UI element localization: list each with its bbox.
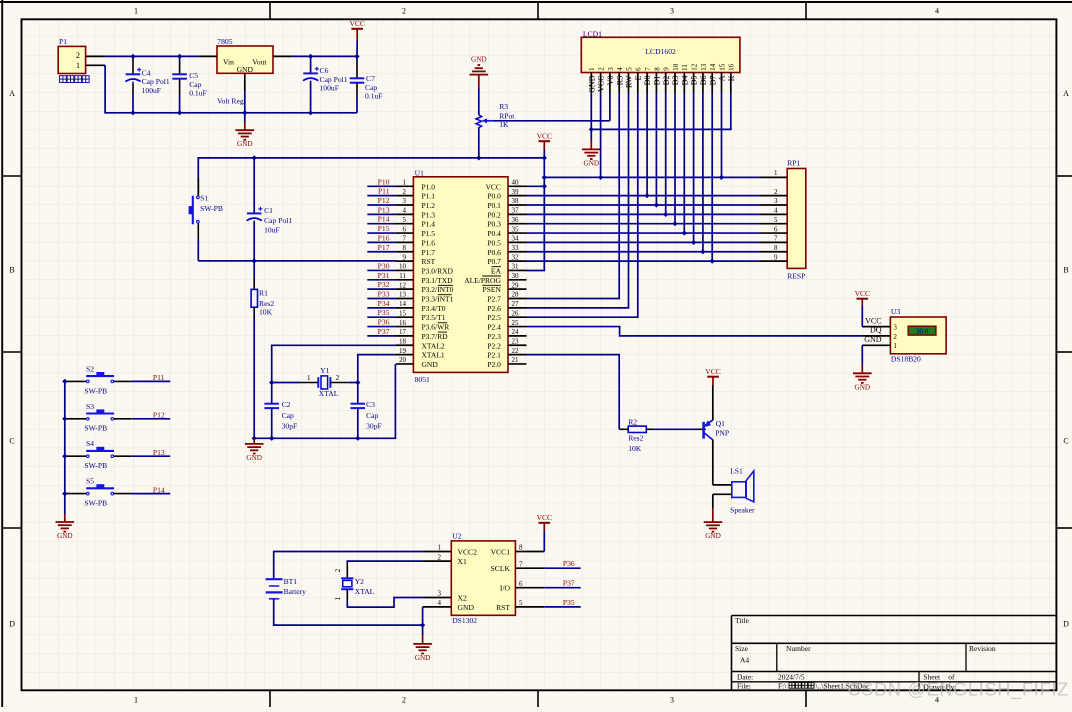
svg-text:15: 15: [399, 309, 407, 317]
U1 left stub wires and net labels P30-P37: [367, 261, 396, 335]
svg-text:B: B: [9, 266, 14, 275]
svg-text:P10: P10: [378, 177, 390, 186]
svg-text:12: 12: [691, 63, 699, 71]
ground GND below speaker: [704, 508, 723, 540]
svg-text:P2.4: P2.4: [487, 323, 501, 332]
svg-text:C5: C5: [189, 71, 198, 80]
junction dot C7 top: [354, 54, 359, 59]
svg-text:100uF: 100uF: [320, 84, 339, 93]
svg-text:3: 3: [403, 197, 407, 205]
wire 7805 GND to rail: [244, 92, 246, 113]
crystal Y2: [334, 561, 423, 601]
svg-text:P31: P31: [378, 271, 390, 280]
switch S2: [65, 364, 131, 395]
svg-text:P37: P37: [563, 579, 575, 588]
power port VCC top: [349, 19, 364, 56]
svg-text:RW: RW: [625, 75, 634, 88]
wire VCC rail to reset circuit: [198, 158, 544, 196]
svg-text:D2: D2: [662, 76, 671, 86]
svg-text:VCC: VCC: [349, 19, 364, 28]
svg-text:C6: C6: [320, 66, 329, 75]
svg-text:37: 37: [512, 207, 520, 215]
svg-text:P3.2/INT0: P3.2/INT0: [422, 285, 454, 294]
svg-text:1: 1: [334, 597, 342, 601]
svg-text:10uF: 10uF: [264, 226, 280, 235]
resistor R2: [619, 418, 654, 453]
svg-text:14: 14: [399, 300, 407, 308]
svg-text:22: 22: [512, 347, 520, 355]
svg-text:P1: P1: [59, 37, 67, 46]
svg-text:7: 7: [403, 235, 407, 243]
svg-text:C2: C2: [282, 400, 291, 409]
svg-text:P12: P12: [153, 411, 165, 420]
svg-text:ALE/PROG: ALE/PROG: [464, 276, 501, 285]
transistor Q1 PNP: [704, 385, 730, 485]
power port VCC near U1: [537, 131, 552, 158]
svg-text:C3: C3: [366, 400, 375, 409]
wire RST net label P35: [544, 606, 580, 608]
svg-text:D6: D6: [699, 76, 708, 86]
svg-text:P0.5: P0.5: [487, 238, 501, 247]
svg-text:RP1: RP1: [787, 159, 800, 168]
title block: [732, 616, 1057, 692]
svg-text:VCC: VCC: [597, 76, 606, 92]
svg-text:Vin: Vin: [223, 57, 234, 66]
svg-text:F:\: F:\: [778, 682, 787, 691]
junction dots C4: [130, 54, 135, 59]
svg-text:D0: D0: [643, 76, 652, 86]
svg-text:1: 1: [774, 169, 778, 177]
svg-text:16: 16: [399, 319, 407, 327]
junction dots VCC rail: [252, 155, 257, 160]
wire XTAL1 pin19: [358, 355, 396, 383]
svg-text:10: 10: [672, 63, 680, 71]
svg-text:SCLK: SCLK: [491, 564, 511, 573]
svg-text:P13: P13: [378, 205, 390, 214]
svg-text:RST: RST: [422, 257, 436, 266]
svg-text:2: 2: [403, 188, 407, 196]
svg-text:I/O: I/O: [500, 584, 511, 593]
svg-text:21: 21: [512, 356, 520, 364]
svg-text:4: 4: [438, 599, 442, 607]
svg-text:39: 39: [512, 188, 520, 196]
svg-text:U3: U3: [891, 307, 900, 316]
svg-text:P2.3: P2.3: [487, 332, 501, 341]
display LCD1 LCD1602 body: [581, 29, 740, 72]
svg-text:LS1: LS1: [730, 467, 743, 476]
svg-text:1: 1: [403, 179, 407, 187]
resistor R1: [251, 261, 274, 438]
svg-text:P1.2: P1.2: [422, 201, 436, 210]
svg-text:5: 5: [519, 599, 523, 607]
svg-text:2024/7/5: 2024/7/5: [778, 672, 805, 681]
svg-text:P0.2: P0.2: [487, 210, 501, 219]
svg-text:8: 8: [403, 244, 407, 252]
switch S3: [65, 402, 131, 433]
svg-text:Y1: Y1: [320, 366, 329, 375]
svg-text:2: 2: [438, 553, 442, 561]
svg-text:D5: D5: [690, 76, 699, 86]
svg-text:VCC: VCC: [865, 316, 881, 325]
svg-text:P11: P11: [378, 187, 390, 196]
svg-text:3: 3: [670, 696, 674, 705]
switch S5: [65, 477, 131, 508]
svg-text:Q1: Q1: [716, 419, 725, 428]
svg-text:7: 7: [644, 67, 652, 71]
ground GND for U3: [853, 345, 872, 391]
junction dot S3 rail: [62, 416, 67, 421]
svg-text:P1.0: P1.0: [422, 182, 436, 191]
svg-text:27: 27: [512, 300, 520, 308]
svg-text:Speaker: Speaker: [730, 506, 755, 515]
svg-text:SW-PB: SW-PB: [84, 424, 107, 433]
junction dot S5 rail: [62, 491, 67, 496]
svg-text:8: 8: [653, 67, 661, 71]
svg-text:C7: C7: [366, 74, 375, 83]
svg-text:Cap: Cap: [189, 80, 201, 89]
svg-text:6: 6: [403, 225, 407, 233]
svg-text:1: 1: [588, 67, 596, 71]
power port VCC for Q1: [705, 367, 720, 385]
svg-text:GND: GND: [471, 56, 487, 64]
wire P2.1 to R2: [527, 355, 620, 430]
wire crystal ground rail to U1 GND pin20: [254, 364, 395, 438]
regulator 7805: [199, 37, 292, 106]
svg-text:7: 7: [519, 560, 523, 568]
svg-text:XTAL2: XTAL2: [422, 341, 445, 350]
svg-text:P2.0: P2.0: [487, 360, 501, 369]
wire SCLK net label P36: [544, 567, 580, 569]
ground GND below R1: [245, 438, 264, 462]
svg-text:Cap Pol1: Cap Pol1: [264, 216, 292, 225]
svg-text:P2.1: P2.1: [487, 351, 501, 360]
svg-text:20: 20: [399, 356, 407, 364]
junction dot S4 rail: [62, 454, 67, 459]
svg-text:A: A: [1063, 89, 1069, 98]
wire LCD VCC pin2 column: [600, 93, 602, 177]
junction dot LCD GND/K: [589, 127, 594, 132]
svg-text:C: C: [1063, 437, 1068, 446]
svg-text:GND: GND: [587, 75, 596, 93]
wire S1 bottom to RST row: [198, 240, 396, 261]
svg-text:VCC: VCC: [855, 289, 870, 298]
wire LCD RS to P2.7: [527, 93, 620, 299]
svg-text:LCD1602: LCD1602: [645, 47, 676, 56]
wire R3 wiper to LCD V0: [494, 120, 610, 122]
svg-text:8: 8: [519, 544, 523, 552]
svg-text:6: 6: [774, 225, 778, 233]
junction dots C5: [177, 54, 182, 59]
svg-text:P14: P14: [153, 485, 165, 494]
wire R2 to Q1 base: [654, 428, 706, 430]
wire P1 pin2 to 7805 Vin: [105, 55, 199, 57]
svg-text:3: 3: [607, 67, 615, 71]
svg-text:9: 9: [774, 253, 778, 261]
svg-text:13: 13: [700, 63, 708, 71]
junction dot S2 rail: [62, 379, 67, 384]
switch S1: [189, 178, 223, 240]
svg-text:RESP: RESP: [787, 272, 805, 281]
svg-text:3: 3: [670, 7, 674, 16]
svg-text:28: 28: [512, 291, 520, 299]
svg-text:V0: V0: [606, 76, 615, 86]
junction dots ground rail: [269, 436, 274, 441]
ground GND below DS1302: [413, 635, 432, 662]
svg-text:P37: P37: [378, 327, 390, 336]
svg-text:6: 6: [635, 67, 643, 71]
svg-text:10K: 10K: [259, 308, 273, 317]
svg-text:DS18B20: DS18B20: [891, 355, 921, 364]
junction dots C6: [308, 54, 313, 59]
svg-text:Res2: Res2: [259, 299, 274, 308]
svg-text:D: D: [9, 619, 15, 628]
wire XTAL2 pin18: [272, 345, 396, 382]
svg-text:VCC: VCC: [485, 182, 500, 191]
wire LCD RW to P2.6: [527, 93, 629, 308]
svg-text:Y2: Y2: [355, 577, 364, 586]
svg-text:4: 4: [774, 207, 778, 215]
svg-text:X1: X1: [458, 557, 467, 566]
svg-text:P1.1: P1.1: [422, 192, 436, 201]
wire switch ground rail: [64, 381, 66, 514]
svg-text:36: 36: [512, 216, 520, 224]
svg-text:P12: P12: [378, 196, 390, 205]
svg-text:4: 4: [616, 67, 624, 71]
wire DS1302 GND pin4: [422, 607, 424, 635]
ground GND below LCD pin1: [582, 140, 601, 167]
svg-text:P3.1/TXD: P3.1/TXD: [422, 276, 454, 285]
wire LCD A pin15 column: [721, 93, 723, 177]
svg-text:1: 1: [307, 374, 311, 382]
svg-text:SW-PB: SW-PB: [200, 204, 223, 213]
svg-text:P35: P35: [378, 308, 390, 317]
svg-text:4: 4: [935, 7, 939, 16]
svg-text:Revision: Revision: [969, 644, 996, 653]
svg-text:A: A: [9, 89, 15, 98]
wire VCC vertical to EA: [527, 158, 545, 271]
svg-text:P3.3/INT1: P3.3/INT1: [422, 295, 454, 304]
svg-text:C: C: [9, 437, 14, 446]
battery BT1: [266, 552, 423, 626]
svg-text:P2.6: P2.6: [487, 304, 501, 313]
U1 pins right: [464, 179, 526, 369]
wire I/O net label P37: [544, 587, 580, 589]
wire LCD pin1 to K backlight: [591, 93, 731, 129]
svg-text:E: E: [634, 75, 643, 80]
svg-text:38: 38: [512, 197, 520, 205]
junction dot R1 bottom rail: [252, 436, 257, 441]
svg-text:P15: P15: [378, 224, 390, 233]
svg-text:1: 1: [134, 696, 138, 705]
svg-text:P2.7: P2.7: [487, 295, 501, 304]
capacitor C1: [247, 158, 293, 261]
svg-text:P32: P32: [378, 280, 390, 289]
svg-text:P33: P33: [378, 290, 390, 299]
svg-text:PNP: PNP: [715, 429, 729, 438]
svg-text:VCC1: VCC1: [491, 548, 511, 557]
svg-text:VCC: VCC: [537, 513, 552, 522]
rtc U2 DS1302 body: [423, 532, 545, 625]
svg-text:6: 6: [519, 580, 523, 588]
svg-text:SW-PB: SW-PB: [84, 386, 107, 395]
svg-text:S5: S5: [86, 477, 94, 486]
svg-text:Battery: Battery: [284, 587, 307, 596]
svg-text:P0.7: P0.7: [487, 257, 501, 266]
power port VCC for U3: [855, 289, 870, 327]
svg-text:34: 34: [512, 235, 520, 243]
svg-text:D: D: [1063, 619, 1069, 628]
svg-text:25: 25: [512, 319, 520, 327]
svg-text:10K: 10K: [628, 444, 642, 453]
svg-text:5: 5: [625, 67, 633, 71]
svg-text:R3: R3: [499, 102, 508, 111]
switch S4: [65, 439, 131, 470]
ground GND switches: [56, 514, 75, 540]
wire P1 pin1 to bottom rail: [105, 65, 357, 113]
sensor U3 DS18B20 body: [862, 307, 946, 364]
svg-text:30pF: 30pF: [366, 421, 382, 430]
svg-text:Cap: Cap: [282, 411, 294, 420]
svg-text:P0.0: P0.0: [487, 192, 501, 201]
svg-text:7805: 7805: [217, 37, 232, 46]
wire U1 pin40 VCC: [527, 185, 545, 187]
svg-text:A: A: [718, 75, 727, 81]
svg-text:2: 2: [402, 7, 406, 16]
svg-text:2: 2: [402, 696, 406, 705]
svg-text:9: 9: [663, 67, 671, 71]
svg-text:30pF: 30pF: [282, 421, 298, 430]
svg-text:File:: File:: [737, 682, 751, 691]
connector P1: [58, 37, 105, 83]
svg-text:U1: U1: [415, 168, 424, 177]
svg-text:U2: U2: [452, 532, 461, 541]
svg-text:Size: Size: [735, 644, 749, 653]
svg-text:26: 26: [512, 309, 520, 317]
ground GND below 7805: [236, 113, 255, 148]
svg-text:0.1uF: 0.1uF: [189, 89, 207, 98]
capacitor C5: [172, 56, 206, 112]
svg-text:P0.3: P0.3: [487, 220, 501, 229]
svg-text:BT1: BT1: [284, 577, 298, 586]
svg-text:D4: D4: [680, 76, 689, 86]
wire VCC rail to RP1 pin1: [544, 176, 759, 178]
svg-text:5: 5: [774, 216, 778, 224]
resistor pack RP1: [759, 159, 805, 281]
svg-text:1: 1: [893, 342, 897, 350]
svg-text:D7: D7: [708, 76, 717, 86]
svg-text:1: 1: [438, 544, 442, 552]
svg-text:19: 19: [399, 347, 407, 355]
junction dots VCC vertical: [542, 175, 547, 180]
svg-text:100uF: 100uF: [142, 86, 161, 95]
svg-text:7: 7: [774, 235, 778, 243]
svg-text:GND: GND: [237, 65, 254, 74]
junction dot battery GND: [420, 623, 425, 628]
svg-text:P3.5/T1: P3.5/T1: [422, 313, 446, 322]
svg-text:16: 16: [728, 63, 736, 71]
wire R3 bottom to VCC rail: [478, 127, 480, 158]
svg-text:2: 2: [336, 374, 340, 382]
mcu U1 8051 body: [413, 168, 508, 384]
svg-text:33: 33: [512, 244, 520, 252]
wire P2.4 to DS18B20 DQ: [527, 327, 863, 336]
svg-text:S3: S3: [86, 402, 94, 411]
svg-text:Cap Pol1: Cap Pol1: [142, 77, 170, 86]
svg-text:S4: S4: [86, 439, 94, 448]
svg-text:VCC: VCC: [705, 367, 720, 376]
speaker LS1: [713, 467, 755, 515]
crystal Y1: [272, 366, 358, 398]
svg-text:Number: Number: [786, 644, 811, 653]
svg-text:P0.6: P0.6: [487, 248, 501, 257]
svg-text:P0.1: P0.1: [487, 201, 501, 210]
wire S3 to net label: [131, 418, 170, 420]
wire S2 to net label: [131, 380, 170, 382]
svg-text:GND: GND: [422, 360, 439, 369]
svg-text:Volt Reg: Volt Reg: [217, 97, 244, 106]
U1 left stub wires and net labels P10-P17: [367, 177, 396, 251]
svg-text:P35: P35: [563, 598, 575, 607]
svg-text:GND: GND: [415, 654, 431, 662]
svg-text:X2: X2: [458, 594, 467, 603]
svg-text:P36: P36: [563, 559, 575, 568]
svg-text:12: 12: [399, 281, 407, 289]
svg-text:3: 3: [438, 590, 442, 598]
svg-text:14: 14: [709, 63, 717, 71]
svg-text:RS: RS: [615, 76, 624, 86]
svg-text:P1.5: P1.5: [422, 229, 436, 238]
svg-text:GND: GND: [855, 383, 871, 391]
svg-text:11: 11: [399, 272, 406, 280]
svg-text:GND: GND: [57, 532, 73, 540]
svg-text:5: 5: [403, 216, 407, 224]
svg-text:VCC: VCC: [537, 131, 552, 140]
svg-text:P2.5: P2.5: [487, 313, 501, 322]
svg-text:Date:: Date:: [737, 672, 753, 681]
svg-text:2: 2: [76, 51, 80, 60]
svg-text:2: 2: [598, 67, 606, 71]
svg-text:DQ: DQ: [870, 326, 882, 335]
svg-text:P1.4: P1.4: [422, 220, 436, 229]
svg-text:LCD1: LCD1: [583, 29, 602, 38]
svg-text:23: 23: [512, 337, 520, 345]
svg-text:R2: R2: [628, 418, 637, 427]
svg-text:24: 24: [512, 328, 520, 336]
svg-text:31: 31: [512, 263, 520, 271]
svg-text:1: 1: [134, 7, 138, 16]
svg-text:XTAL: XTAL: [319, 389, 339, 398]
svg-text:GND: GND: [584, 159, 600, 167]
svg-text:P2.2: P2.2: [487, 341, 501, 350]
svg-text:C4: C4: [142, 69, 151, 78]
capacitor C3: [351, 383, 382, 439]
svg-text:30.0: 30.0: [916, 328, 929, 336]
svg-text:P1.3: P1.3: [422, 210, 436, 219]
svg-text:K: K: [727, 75, 736, 81]
wire LCD E to P2.5: [527, 93, 638, 317]
junction dots data bus: [645, 193, 715, 264]
svg-text:P13: P13: [153, 448, 165, 457]
svg-text:P30: P30: [378, 261, 390, 270]
wire 7805 Vout rail: [292, 55, 357, 57]
svg-text:P34: P34: [378, 299, 390, 308]
ground GND above R3 (inverted): [470, 56, 489, 115]
svg-text:18: 18: [399, 337, 407, 345]
svg-text:15: 15: [718, 63, 726, 71]
svg-text:2: 2: [774, 188, 778, 196]
junction dot C1 bottom: [252, 258, 257, 263]
svg-text:2: 2: [893, 333, 897, 341]
